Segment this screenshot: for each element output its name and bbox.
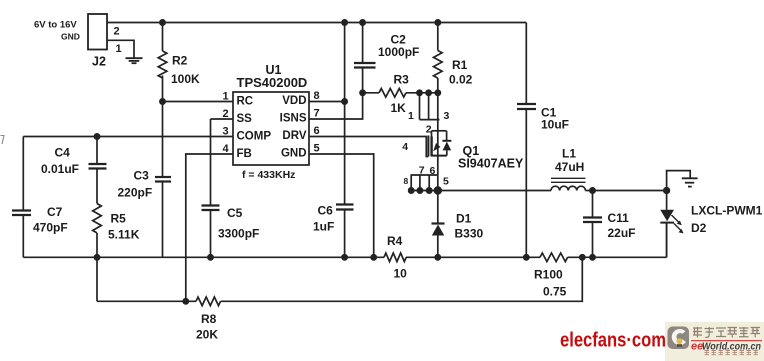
ground (output) bbox=[682, 178, 698, 186]
svg-text:220pF: 220pF bbox=[118, 186, 153, 200]
LED D2 LXCL-PWM1 bbox=[660, 191, 762, 258]
resistor R1 bbox=[433, 23, 472, 93]
wire SS pin to C5 bbox=[211, 118, 234, 120]
wire RC pin to R2 bbox=[163, 101, 234, 103]
capacitor C11 bbox=[583, 191, 636, 258]
resistor R100 bbox=[534, 253, 568, 299]
svg-text:C6: C6 bbox=[318, 204, 334, 218]
svg-text:R4: R4 bbox=[387, 234, 403, 248]
svg-text:3: 3 bbox=[444, 110, 450, 122]
svg-text:20K: 20K bbox=[196, 328, 218, 342]
resistor R8 bbox=[196, 297, 221, 342]
node C5/gnd bbox=[208, 255, 213, 260]
capacitor C5 bbox=[202, 119, 260, 257]
svg-text:R5: R5 bbox=[111, 212, 127, 226]
svg-text:4: 4 bbox=[402, 141, 408, 153]
svg-text:3300pF: 3300pF bbox=[218, 227, 259, 241]
svg-text:GND: GND bbox=[281, 148, 307, 160]
svg-text:0.75: 0.75 bbox=[543, 285, 567, 299]
node FB tap bbox=[183, 299, 188, 304]
svg-text:10: 10 bbox=[394, 267, 408, 281]
wire input rail bbox=[107, 22, 526, 24]
svg-text:SI9407AEY: SI9407AEY bbox=[458, 157, 524, 171]
svg-text:1K: 1K bbox=[391, 101, 407, 115]
svg-text:6: 6 bbox=[430, 165, 436, 177]
svg-text:8: 8 bbox=[314, 90, 320, 102]
svg-text:R100: R100 bbox=[534, 268, 563, 282]
svg-text:f = 433KHz: f = 433KHz bbox=[242, 169, 295, 181]
transistor Q1 SI9407AEY bbox=[402, 90, 524, 194]
svg-text:VDD: VDD bbox=[282, 95, 306, 107]
capacitor C7 bbox=[12, 137, 68, 258]
diode D1 B330 bbox=[432, 191, 484, 258]
svg-text:R2: R2 bbox=[172, 54, 188, 68]
node RC bbox=[160, 99, 165, 104]
svg-text:7: 7 bbox=[419, 165, 425, 177]
wire VDD pin to input rail bbox=[309, 101, 345, 103]
small slogan glyph substitutes bbox=[705, 351, 759, 355]
svg-text:R8: R8 bbox=[201, 312, 217, 326]
svg-text:RC: RC bbox=[237, 96, 254, 108]
svg-text:C5: C5 bbox=[227, 206, 243, 220]
svg-text:1: 1 bbox=[116, 43, 122, 55]
ground (input) bbox=[126, 58, 143, 63]
svg-text:0.01uF: 0.01uF bbox=[41, 162, 79, 176]
Chinese title glyph substitutes bbox=[693, 327, 760, 338]
svg-text:47uH: 47uH bbox=[555, 160, 584, 174]
drain pins 5,6,7,8 bracket bbox=[411, 174, 439, 176]
node C6/gnd bbox=[342, 255, 347, 260]
svg-text:1000pF: 1000pF bbox=[378, 45, 419, 59]
svg-text:7: 7 bbox=[314, 108, 320, 120]
svg-text:6: 6 bbox=[314, 125, 320, 137]
svg-text:5: 5 bbox=[314, 143, 320, 155]
svg-text:1uF: 1uF bbox=[313, 220, 334, 234]
svg-text:elecfans·com: elecfans·com bbox=[560, 330, 666, 352]
wire switch node bbox=[411, 190, 552, 192]
wire DRV pin to Q1 gate bbox=[309, 137, 428, 157]
resistor R2 bbox=[158, 23, 200, 102]
node ISNS/R3/C2 bbox=[360, 90, 365, 95]
svg-text:C11: C11 bbox=[608, 211, 630, 225]
svg-text:C4: C4 bbox=[55, 146, 71, 160]
svg-text:2: 2 bbox=[114, 26, 120, 38]
capacitor C4 bbox=[41, 137, 107, 204]
node rail/R2 bbox=[160, 20, 165, 25]
svg-text:LXCL-PWM1: LXCL-PWM1 bbox=[691, 204, 763, 218]
svg-text:SS: SS bbox=[237, 113, 253, 125]
svg-text:ISNS: ISNS bbox=[280, 113, 307, 125]
svg-text:5: 5 bbox=[443, 176, 449, 188]
capacitor C1 bbox=[517, 23, 569, 258]
svg-text:6V to 16V: 6V to 16V bbox=[34, 20, 77, 31]
svg-text:10uF: 10uF bbox=[541, 118, 569, 132]
resistor R4 bbox=[384, 234, 407, 281]
capacitor C6 bbox=[313, 23, 354, 258]
svg-text:J2: J2 bbox=[92, 55, 106, 69]
red flourish line and script bbox=[691, 340, 762, 342]
wire FB pin down to feedback line bbox=[186, 154, 233, 301]
svg-text:GND: GND bbox=[61, 32, 80, 42]
svg-text:D2: D2 bbox=[691, 221, 707, 235]
svg-text:DRV: DRV bbox=[282, 130, 306, 142]
source pins 1,2,3 bracket bbox=[417, 90, 422, 95]
wire J2 pin1 to ground bbox=[107, 40, 134, 57]
svg-text:R1: R1 bbox=[452, 58, 468, 72]
stray scan mark left edge bbox=[1, 136, 5, 145]
svg-text:22uF: 22uF bbox=[608, 226, 636, 240]
resistor R3 bbox=[363, 73, 438, 116]
svg-text:World.com.cn: World.com.cn bbox=[702, 342, 761, 353]
main spine bbox=[437, 93, 439, 191]
svg-text:COMP: COMP bbox=[237, 131, 272, 143]
EEWorld logo block bbox=[665, 322, 764, 361]
svg-text:5.11K: 5.11K bbox=[108, 228, 140, 242]
inductor L1 bbox=[551, 147, 586, 191]
connector J2 bbox=[34, 14, 122, 69]
svg-text:B330: B330 bbox=[455, 227, 484, 241]
wire ISNS pin bbox=[309, 93, 363, 119]
svg-text:FB: FB bbox=[237, 148, 252, 160]
wire L1 to LED node bbox=[585, 190, 666, 192]
symbol body bbox=[432, 130, 447, 132]
capacitor C3 bbox=[118, 102, 172, 258]
wire feedback line (line2) bbox=[97, 300, 196, 302]
wire ground bus (line1) bbox=[23, 256, 384, 258]
svg-text:100K: 100K bbox=[171, 72, 200, 86]
wire GND pin down bbox=[309, 154, 374, 257]
svg-text:470pF: 470pF bbox=[33, 221, 68, 235]
node R5/gnd line bbox=[94, 255, 99, 260]
resistor R5 bbox=[93, 204, 140, 302]
svg-text:R3: R3 bbox=[394, 73, 410, 87]
op-amp U1 TPS40200D bbox=[223, 63, 320, 181]
svg-text:D1: D1 bbox=[456, 212, 472, 226]
wire COMP pin bbox=[23, 136, 233, 138]
svg-text:8: 8 bbox=[404, 176, 409, 186]
svg-text:1: 1 bbox=[408, 110, 414, 122]
svg-text:TPS40200D: TPS40200D bbox=[237, 75, 308, 90]
svg-text:L1: L1 bbox=[562, 147, 576, 161]
wire output to ground symbol bbox=[667, 171, 691, 191]
node COMP/C4 bbox=[94, 134, 99, 139]
svg-text:1: 1 bbox=[223, 91, 229, 103]
body diode of Q1 bbox=[446, 131, 448, 141]
svg-text:C3: C3 bbox=[134, 169, 150, 183]
capacitor C2 bbox=[354, 23, 419, 93]
svg-text:C7: C7 bbox=[47, 205, 63, 219]
svg-text:0.02: 0.02 bbox=[449, 73, 473, 87]
